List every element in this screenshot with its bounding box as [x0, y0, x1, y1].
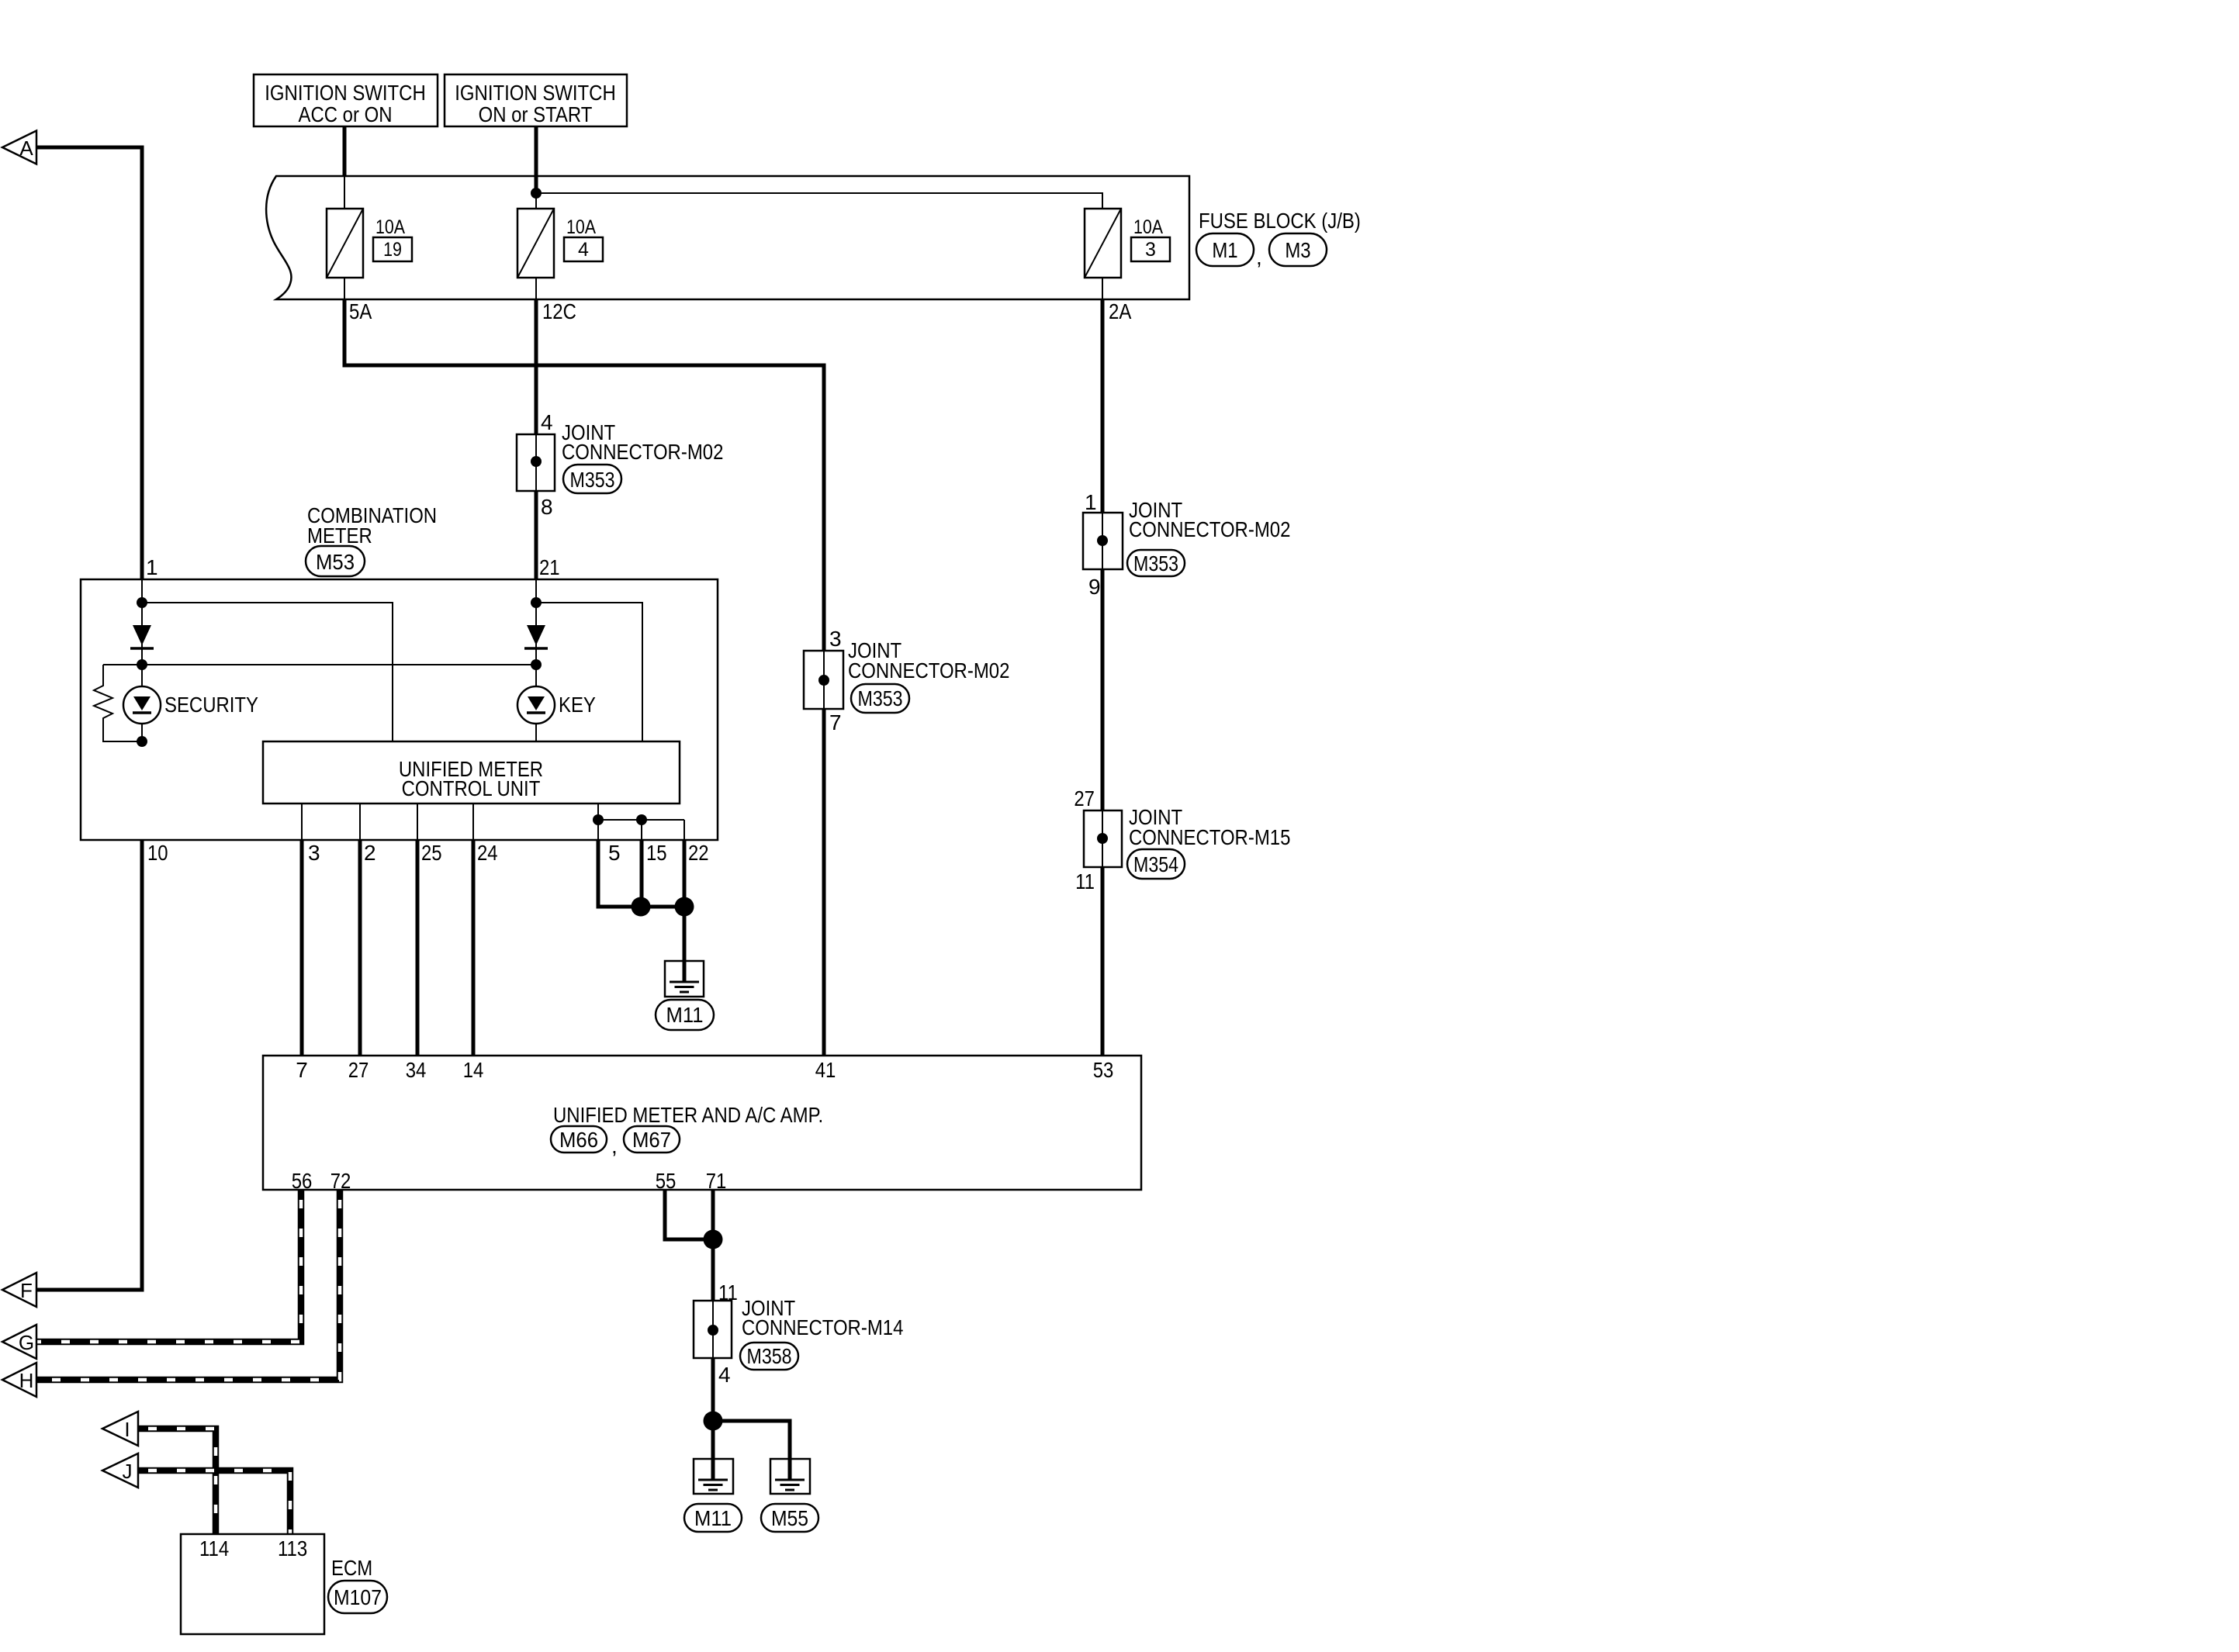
svg-text:10A: 10A: [1133, 216, 1163, 238]
svg-text:M11: M11: [694, 1506, 732, 1530]
svg-text:3: 3: [308, 841, 320, 865]
connector oval M107: [328, 1581, 387, 1613]
box: IGNITION SWITCH ACC or ON: [254, 74, 438, 126]
svg-text:7: 7: [829, 710, 842, 734]
wire: shielded wire A/C amp pin 72 to arrow H: [36, 1190, 340, 1380]
box: combination meter: [81, 579, 718, 840]
diode in security branch: [130, 625, 154, 648]
svg-text:M1: M1: [1212, 238, 1237, 262]
svg-text:M107: M107: [334, 1585, 382, 1609]
node: meter pin 21 branch dot: [531, 597, 542, 608]
svg-text:M53: M53: [316, 550, 355, 574]
svg-text:113: 113: [278, 1536, 307, 1560]
arrow J: [102, 1453, 138, 1488]
node: security branch dot upper: [137, 659, 147, 670]
node: ground junction dot left: [632, 897, 651, 917]
box: unified meter control unit: [263, 741, 680, 804]
svg-text:F: F: [20, 1279, 33, 1302]
svg-text:M3: M3: [1285, 238, 1310, 262]
svg-text:M353: M353: [1133, 551, 1178, 575]
connector oval M1: [1196, 233, 1254, 266]
node: pin 5 link dot: [593, 814, 604, 825]
svg-text:CONNECTOR-M02: CONNECTOR-M02: [848, 658, 1009, 683]
joint connector M02 pins 1-9: [1083, 513, 1123, 569]
wire: meter internal vertical from pin 1 through security branch: [141, 579, 143, 741]
connector oval M353 for joint connector 4-8: [563, 465, 621, 493]
svg-text:12C: 12C: [542, 299, 576, 323]
wire: shielded wire arrow J to ECM pin 113: [138, 1471, 290, 1534]
node: security branch dot lower: [137, 736, 147, 747]
label: JOINT CONNECTOR-M02 middle: [848, 638, 1009, 683]
label: ignition switch ACC box text: [265, 81, 426, 126]
arrow I: [102, 1412, 138, 1446]
svg-text:10A: 10A: [375, 216, 405, 238]
svg-text:11: 11: [718, 1280, 738, 1305]
svg-text:CONNECTOR-M14: CONNECTOR-M14: [742, 1315, 903, 1339]
svg-text:M353: M353: [858, 686, 903, 710]
svg-text:UNIFIED METER AND A/C AMP.: UNIFIED METER AND A/C AMP.: [553, 1103, 823, 1127]
label: JOINT CONNECTOR-M02 first: [562, 420, 723, 464]
svg-text:,: ,: [611, 1134, 618, 1158]
svg-text:55: 55: [656, 1169, 677, 1193]
wire: ignition switch ACC feed to fuse block: [343, 126, 347, 176]
node: key branch dot: [531, 659, 542, 670]
wire: meter pin 5 down and right to ground junction: [598, 840, 641, 907]
node: junction of pins 55 and 71: [704, 1230, 723, 1249]
wire: meter pin 3 to A/C amp pin 7: [300, 840, 304, 1056]
wire: control unit ground links pins 5 15 22: [598, 820, 684, 840]
svg-text:M358: M358: [747, 1344, 792, 1368]
svg-text:KEY: KEY: [559, 693, 596, 717]
arrow G: [2, 1325, 36, 1359]
label: COMBINATION METER: [307, 503, 437, 548]
node: ground split junction below M14: [704, 1412, 723, 1431]
svg-text:M66: M66: [559, 1128, 598, 1152]
svg-text:5: 5: [608, 841, 621, 865]
wire: meter pin 15 down to ground junction: [640, 840, 644, 907]
svg-text:M55: M55: [771, 1506, 808, 1530]
svg-text:21: 21: [539, 555, 560, 579]
arrow A: [2, 131, 36, 164]
box: unified meter and A/C amp: [263, 1056, 1141, 1190]
node: ground junction dot right: [675, 897, 694, 917]
wire: fuse 3 output 2A down to joint connector M02 pin 1: [1101, 299, 1105, 513]
wire: meter internal vertical from pin 21 through key branch: [535, 579, 537, 741]
joint connector M02 pins 4-8: [517, 434, 555, 491]
connector oval M3: [1269, 233, 1327, 266]
joint connector M15 pins 27-11: [1084, 810, 1122, 867]
svg-text:ECM: ECM: [331, 1556, 372, 1580]
svg-text:M354: M354: [1133, 852, 1178, 876]
svg-text:ON or START: ON or START: [479, 102, 593, 126]
svg-text:27: 27: [348, 1058, 369, 1082]
svg-text:M11: M11: [666, 1003, 704, 1027]
wire: shielded wire A/C amp pin 56 to arrow G: [36, 1190, 301, 1342]
wire: meter pin 24 to A/C amp pin 14: [472, 840, 476, 1056]
wire: meter internal branch from pin 1 node to control unit: [142, 603, 393, 741]
svg-text:CONTROL UNIT: CONTROL UNIT: [402, 776, 541, 800]
svg-text:CONNECTOR-M15: CONNECTOR-M15: [1129, 825, 1290, 849]
fuse 19 10A: [327, 209, 363, 278]
fuse number box 4: [564, 237, 603, 261]
svg-text:SECURITY: SECURITY: [164, 693, 258, 717]
fuse number box 19: [373, 237, 412, 261]
wire: meter pin 2 to A/C amp pin 27: [358, 840, 362, 1056]
label: ignition switch ON box text: [455, 81, 616, 126]
diode in key branch: [524, 625, 548, 648]
node: meter pin 1 branch dot: [137, 597, 147, 608]
wire: A/C amp pin 71 down to joint connector M14 pin 11: [711, 1190, 715, 1301]
svg-text:ACC or ON: ACC or ON: [299, 102, 393, 126]
node: pin 15 link dot: [636, 814, 647, 825]
svg-text:53: 53: [1093, 1058, 1114, 1082]
connector oval M353 for joint connector 1-9: [1127, 550, 1185, 576]
joint connector M14 pins 11-4: [694, 1301, 732, 1358]
joint connector M02 pins 3-7: [804, 651, 843, 709]
fuse 4 10A: [517, 209, 554, 278]
wire: thin feeder from ON branch across fuse block to fuse 3: [536, 193, 1102, 299]
wire: combination meter pin 10 down and left to arrow F: [36, 840, 142, 1290]
wire: control unit output pin 3: [301, 804, 303, 840]
fuse number box 3: [1131, 237, 1170, 261]
svg-text:22: 22: [688, 841, 709, 865]
svg-text:H: H: [19, 1369, 34, 1392]
wire: control unit output pin 5: [597, 804, 599, 840]
svg-text:M353: M353: [570, 468, 615, 492]
wire: meter pin 22 down to ground M11: [683, 840, 687, 982]
box: IGNITION SWITCH ON or START: [445, 74, 627, 126]
wire: joint connector M02 pin 8 down to combination meter pin 21: [535, 491, 538, 579]
svg-text:15: 15: [646, 841, 667, 865]
svg-text:19: 19: [383, 239, 402, 261]
connector oval M11 below meter pin 22: [656, 1000, 714, 1030]
svg-text:24: 24: [477, 841, 498, 865]
svg-text:114: 114: [199, 1536, 229, 1560]
svg-text:J: J: [123, 1460, 133, 1483]
svg-text:M67: M67: [632, 1128, 671, 1152]
wire: joint connector M02 pin 9 down to joint connector M15 pin 27: [1101, 569, 1105, 810]
svg-text:IGNITION SWITCH: IGNITION SWITCH: [455, 81, 616, 105]
wire: fuse 4 output 12C down to joint connector M02 pin 4: [535, 299, 538, 434]
connector oval M353 for joint connector 3-7: [851, 684, 909, 713]
svg-text:FUSE BLOCK (J/B): FUSE BLOCK (J/B): [1199, 209, 1361, 233]
fuse 3 10A: [1085, 209, 1121, 278]
svg-text:4: 4: [718, 1363, 731, 1387]
box: fuse block J/B outline with break squiggle left edge: [266, 176, 1189, 299]
svg-text:9: 9: [1088, 575, 1101, 599]
svg-text:10A: 10A: [566, 216, 596, 238]
label: JOINT CONNECTOR-M15: [1129, 805, 1290, 849]
wire: thin feed into fuse 19: [344, 176, 345, 299]
wire: meter internal branch from pin 21 node to control unit: [536, 603, 642, 741]
wire: ground branch to ground M55: [713, 1421, 790, 1480]
svg-text:G: G: [19, 1331, 34, 1354]
svg-text:METER: METER: [307, 524, 372, 548]
ground M11 below meter pin 22: [665, 961, 704, 997]
wire: meter pin 25 to A/C amp pin 34: [416, 840, 420, 1056]
svg-text:1: 1: [1085, 490, 1097, 514]
svg-text:11: 11: [1075, 869, 1095, 893]
svg-text:5A: 5A: [349, 299, 372, 323]
svg-text:25: 25: [421, 841, 442, 865]
svg-text:2: 2: [364, 841, 376, 865]
wire: control unit output pin 24: [472, 804, 474, 840]
connector oval M354: [1127, 849, 1185, 879]
wire: fuse 19 output 5A, horizontal run, down to pin 41 of A/C amp: [344, 299, 824, 1056]
connector oval M11 bottom: [684, 1504, 742, 1532]
LED SECURITY: [123, 686, 161, 724]
svg-text:7: 7: [296, 1058, 308, 1082]
arrow H: [2, 1363, 36, 1397]
svg-text:34: 34: [406, 1058, 427, 1082]
wire: thin feed into fuse 4: [535, 193, 537, 299]
connector oval M55: [761, 1504, 818, 1532]
wire: ignition switch ON feed to fuse block: [535, 126, 538, 193]
wire: junction link between ground junction dots: [641, 905, 684, 909]
wire: shielded wire arrow I to ECM pin 114: [138, 1429, 216, 1534]
label: unified meter control unit text: [399, 757, 543, 800]
svg-text:I: I: [124, 1418, 130, 1441]
arrow F: [2, 1273, 36, 1307]
connector oval M67: [624, 1126, 680, 1153]
svg-text:56: 56: [292, 1169, 313, 1193]
wire: joint connector M14 pin 4 down to ground junction and ground M11: [711, 1358, 715, 1480]
svg-text:3: 3: [1145, 239, 1156, 261]
box: ECM: [181, 1534, 324, 1634]
svg-text:A: A: [19, 137, 33, 160]
svg-text:10: 10: [147, 841, 168, 865]
svg-text:14: 14: [463, 1058, 484, 1082]
ground M11 below joint connector M14: [694, 1459, 733, 1494]
svg-text:72: 72: [330, 1169, 351, 1193]
svg-text:4: 4: [541, 410, 553, 434]
connector oval M358: [740, 1343, 798, 1370]
svg-text:CONNECTOR-M02: CONNECTOR-M02: [1129, 517, 1290, 541]
svg-text:1: 1: [146, 555, 158, 579]
wire: arrow A to combination meter pin 1: [36, 147, 142, 579]
resistor in combination meter: [94, 665, 142, 741]
svg-text:27: 27: [1074, 786, 1095, 810]
label: JOINT CONNECTOR-M14: [742, 1296, 903, 1339]
wire: A/C amp pin 55 down and right to junction: [665, 1190, 713, 1239]
node: junction dot on ON feed inside fuse block: [531, 188, 542, 199]
connector oval M66: [551, 1126, 607, 1153]
svg-text:4: 4: [578, 239, 589, 261]
svg-text:,: ,: [1256, 245, 1262, 269]
ground M55: [770, 1459, 810, 1494]
wire: meter internal horizontal linking security and key branches: [103, 664, 536, 665]
wire: joint connector M15 pin 11 down to A/C amp pin 53: [1101, 867, 1105, 1056]
connector oval M53: [306, 546, 365, 576]
label: JOINT CONNECTOR-M02 right: [1129, 498, 1290, 541]
svg-text:41: 41: [815, 1058, 836, 1082]
wire: control unit output pin 2: [359, 804, 361, 840]
LED KEY: [517, 686, 555, 724]
wire: control unit output pin 25: [417, 804, 418, 840]
svg-text:71: 71: [706, 1169, 727, 1193]
svg-text:CONNECTOR-M02: CONNECTOR-M02: [562, 440, 723, 464]
svg-text:3: 3: [829, 627, 842, 651]
svg-text:IGNITION SWITCH: IGNITION SWITCH: [265, 81, 426, 105]
svg-text:2A: 2A: [1109, 299, 1132, 323]
svg-text:8: 8: [541, 495, 553, 519]
